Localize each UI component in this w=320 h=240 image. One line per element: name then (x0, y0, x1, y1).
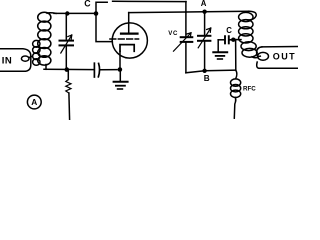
svg-text:A: A (201, 0, 207, 8)
junction top of tuning capacitor (65, 11, 69, 15)
ground (cathode) (114, 71, 128, 89)
grid (dashed) (110, 38, 139, 40)
RFC choke (231, 70, 257, 118)
svg-text:OUT: OUT (273, 52, 296, 62)
plate lead (128, 13, 130, 33)
tank coil L1 (239, 11, 257, 43)
junction rail / resistor (65, 67, 70, 72)
resistor (grid leak) (66, 71, 71, 120)
svg-text:IN: IN (2, 56, 13, 67)
plate bar (121, 32, 138, 34)
svg-text:C: C (226, 26, 232, 35)
ground (bypass) (213, 52, 227, 59)
junction cathode/ground (118, 67, 123, 72)
transformer T1 secondary coil (38, 12, 56, 69)
variable capacitor (input tuning) (60, 14, 74, 70)
wire plate line (129, 11, 249, 12)
svg-text:C: C (84, 0, 91, 9)
junction capacitor / coil tap (231, 38, 235, 42)
node A (202, 10, 206, 14)
variable capacitor (right, tank) (198, 12, 211, 71)
wire left ground rail (44, 68, 93, 70)
wire tank top (54, 12, 96, 14)
cathode lead (119, 51, 121, 68)
cathode (120, 45, 134, 52)
circled label A (27, 95, 41, 109)
svg-text:B: B (204, 74, 210, 83)
terminal IN (0, 49, 32, 72)
link coil (output coupling) (241, 42, 258, 58)
svg-text:RFC: RFC (243, 85, 256, 92)
node B (202, 69, 206, 73)
svg-text:A: A (31, 97, 37, 107)
variable capacitor VC (left, tank) (168, 12, 192, 73)
transformer T1 primary coil (33, 40, 40, 65)
capacitor (series in rail) (94, 63, 117, 77)
terminal OUT (257, 47, 298, 69)
tube V1 (110, 13, 147, 69)
wire feedback drop (185, 2, 187, 13)
wire tap down to rail (235, 40, 237, 71)
svg-text:VC: VC (168, 30, 178, 37)
node junction grid/feedback (94, 11, 99, 16)
capacitor C (feedback gap) + label (84, 0, 186, 13)
capacitor C (bypass) + label (218, 26, 235, 51)
wire grid lead (96, 14, 112, 42)
wire tank bottom rail (186, 70, 236, 73)
